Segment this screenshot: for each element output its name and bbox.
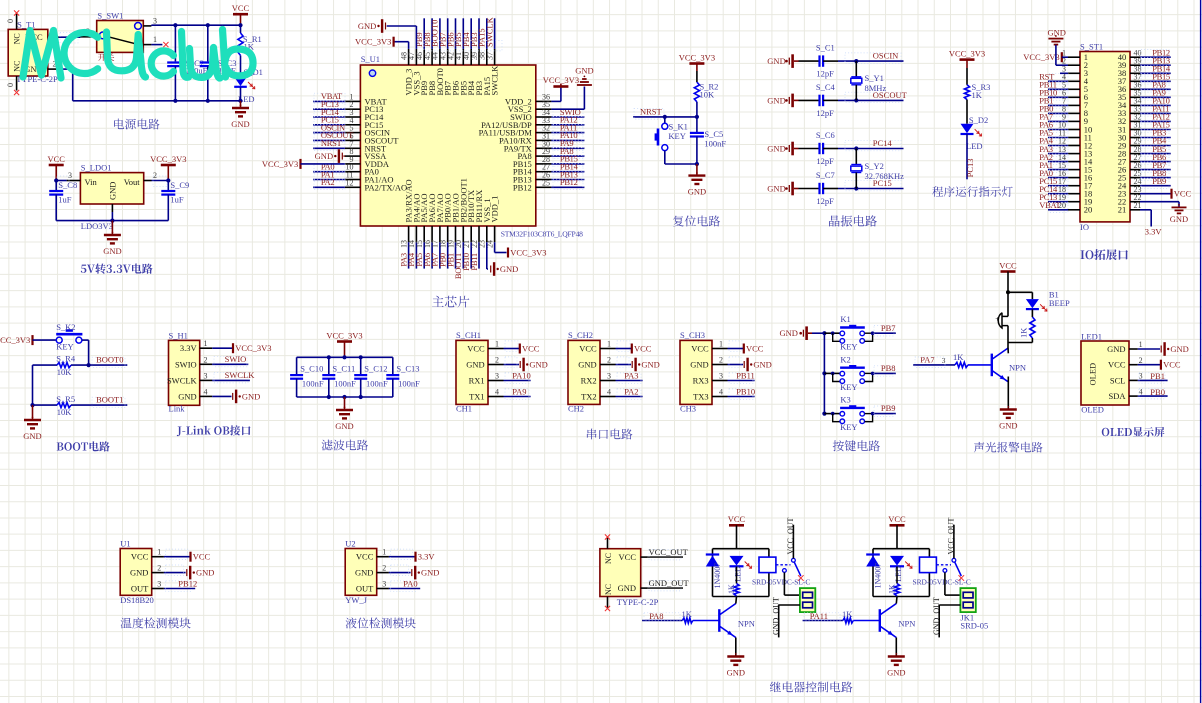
svg-text:3: 3 — [153, 17, 157, 26]
svg-text:VCC_3V3: VCC_3V3 — [949, 48, 985, 58]
connector T2 TYPE-C-2P — [600, 549, 641, 597]
svg-text:+: + — [995, 314, 999, 323]
power 3.3V (U2) — [414, 552, 416, 562]
svg-text:PB8: PB8 — [881, 363, 896, 373]
wire CH2 pin1 to VCC — [616, 348, 632, 350]
svg-text:VCC_3V3: VCC_3V3 — [262, 159, 298, 169]
junction — [871, 372, 875, 376]
power VCC (LDO) — [49, 164, 64, 167]
dashed link coil-switch — [936, 564, 951, 566]
wire net PA15 — [486, 18, 488, 49]
module U2 (YW_J) — [345, 549, 377, 596]
ground GND (filter) — [344, 397, 346, 410]
wire net PA2 — [616, 396, 643, 398]
svg-text:PA2/TX/AO: PA2/TX/AO — [365, 182, 408, 192]
svg-text:1: 1 — [1139, 340, 1143, 349]
svg-text:VCC: VCC — [193, 552, 211, 562]
key K3 — [833, 414, 840, 422]
switch common — [792, 558, 796, 562]
svg-text:GND: GND — [466, 360, 484, 370]
svg-text:2: 2 — [607, 356, 611, 365]
wire net PB14 — [1140, 72, 1171, 74]
pin 5 of U1 (OSCIN) — [345, 132, 361, 134]
pin 40 of ST1 — [1130, 56, 1140, 58]
pin 4 of H1 (GND) — [200, 395, 213, 397]
wire emitter to GND — [1007, 377, 1009, 410]
svg-text:2: 2 — [157, 564, 161, 573]
svg-text:TX1: TX1 — [469, 392, 485, 402]
capacitor S_C5 — [696, 117, 698, 132]
svg-text:S_C10: S_C10 — [300, 363, 323, 373]
wire net PA2 — [313, 186, 345, 188]
pin 36 of ST1 — [1130, 88, 1140, 90]
pin 10 of ST1 — [1068, 129, 1080, 131]
wire contact to connector — [783, 572, 785, 595]
power VCC_3V3 (BOOT) — [31, 335, 33, 345]
junction — [238, 99, 242, 103]
svg-text:1N4007: 1N4007 — [873, 563, 882, 589]
wire net PB12 — [1140, 56, 1171, 58]
wire net PC14 — [1048, 193, 1068, 195]
wire net RST — [1048, 80, 1068, 82]
svg-text:GND: GND — [231, 119, 249, 129]
wire net PB13 — [1140, 64, 1171, 66]
wire net PA8 — [551, 155, 584, 157]
pin1 marker — [369, 70, 375, 76]
selection hints top pins — [424, 41, 502, 51]
svg-text:1K: 1K — [842, 609, 853, 619]
title 主芯片 — [432, 296, 469, 308]
svg-text:3: 3 — [942, 356, 946, 365]
wire net PB6 — [455, 18, 457, 49]
pin 17 of U1 (PA7/AO) — [439, 226, 441, 242]
svg-text:GND: GND — [103, 246, 121, 256]
junction — [238, 23, 242, 27]
pin 1 of CH1 (VCC) — [488, 348, 504, 350]
pin 39 of ST1 — [1130, 64, 1140, 66]
ground GND (BOOT) — [32, 405, 34, 419]
dashed link coil-switch — [776, 564, 791, 566]
capacitor S_C2 — [174, 25, 176, 61]
svg-text:GND: GND — [315, 151, 333, 161]
power VCC (CH3) — [743, 344, 745, 354]
svg-text:3.3V: 3.3V — [418, 552, 436, 562]
junction — [327, 395, 331, 399]
power VCC_3V3 at U1 pin9 — [299, 159, 301, 169]
junction — [822, 371, 826, 375]
pin 18 of ST1 — [1068, 193, 1080, 195]
wire net SWCLK — [212, 379, 250, 381]
pin 2 of LED1 (VCC) — [1129, 364, 1138, 366]
wire net PB10 — [470, 242, 472, 268]
wire GND to S_C1 — [794, 60, 799, 62]
svg-text:PC13: PC13 — [965, 158, 975, 177]
power VCC_3V3 (LDO out) — [161, 164, 176, 167]
pin 33 of ST1 — [1130, 112, 1140, 114]
svg-text:K1: K1 — [840, 314, 850, 324]
pin 2 of CH2 (GND) — [600, 364, 616, 366]
pin 18 of U1 (PB0/AO) — [447, 226, 449, 242]
svg-text:S_Y2: S_Y2 — [865, 161, 884, 171]
svg-text:3: 3 — [607, 372, 611, 381]
junction — [173, 23, 177, 27]
title 温度检测模块 — [121, 618, 191, 629]
power VCC (relay 2) — [890, 524, 905, 527]
junction — [695, 115, 699, 119]
wire BOOT0 row — [33, 364, 58, 366]
svg-text:2: 2 — [382, 564, 386, 573]
junction — [342, 355, 346, 359]
svg-text:LED1: LED1 — [1081, 331, 1102, 341]
pin NC bottom of T1 — [16, 76, 18, 91]
wire net PA7 — [439, 242, 441, 268]
switch contact — [783, 569, 787, 573]
wire GND to S_C6 — [794, 148, 799, 150]
svg-text:32.768KHz: 32.768KHz — [865, 171, 905, 181]
pin 29 of ST1 — [1130, 145, 1140, 147]
pin 23 of U1 (VSS_1) — [486, 226, 488, 242]
svg-text:PB9: PB9 — [881, 403, 896, 413]
wire net PB12 — [164, 588, 195, 590]
svg-text:1: 1 — [204, 339, 208, 348]
wire U1 pin47 to GND — [415, 26, 417, 49]
wire net PB4 — [1140, 145, 1171, 147]
wire U1 pin23 to GND — [486, 242, 488, 269]
pin 2 of U1 (GND) — [152, 572, 164, 574]
svg-text:KEY: KEY — [840, 422, 857, 432]
wire net PC14 — [313, 116, 345, 118]
wire net OSCOUT — [313, 139, 345, 141]
svg-text:GND: GND — [108, 182, 118, 200]
svg-text:KEY: KEY — [840, 342, 857, 352]
svg-text:1N4007: 1N4007 — [713, 563, 722, 589]
wire CH1 pin1 to VCC — [504, 348, 520, 350]
wire collector — [895, 597, 898, 604]
svg-text:10K: 10K — [700, 90, 716, 100]
wire pin2 to VCC_3V3 — [152, 180, 169, 182]
svg-text:3: 3 — [719, 372, 723, 381]
wire net PB13 — [551, 179, 584, 181]
junction — [822, 412, 826, 416]
svg-text:1K: 1K — [682, 609, 693, 619]
wire emitter to GND — [735, 638, 737, 657]
svg-text:OSCIN: OSCIN — [873, 51, 899, 61]
power VCC ST1 pin23 — [1140, 193, 1171, 195]
svg-text:12pF: 12pF — [816, 69, 834, 79]
wire net PA3 — [1048, 153, 1068, 155]
svg-text:Link: Link — [169, 404, 186, 414]
svg-text:8MHz: 8MHz — [865, 83, 887, 93]
wire net PA4 — [1048, 145, 1068, 147]
pin 3 of CH2 (RX2) — [600, 380, 616, 382]
key K2 — [833, 373, 840, 381]
svg-text:PB0: PB0 — [1150, 387, 1165, 397]
wire R4 to BOOT0 label — [71, 364, 127, 366]
svg-text:NPN: NPN — [738, 619, 755, 629]
wire resistor to collector node — [1031, 338, 1033, 343]
svg-text:S_T1: S_T1 — [17, 19, 35, 29]
wire net PA10 — [504, 380, 531, 382]
pin 46 of U1 (PB9) — [423, 49, 425, 65]
wire CH3 pin2 to GND — [728, 364, 744, 366]
svg-text:VDD_1: VDD_1 — [490, 196, 500, 223]
svg-text:S_K2: S_K2 — [56, 322, 75, 332]
svg-text:GND: GND — [767, 56, 785, 66]
pin 11 of U1 (PA1/AO) — [345, 179, 361, 181]
svg-text:NPN: NPN — [1009, 363, 1026, 373]
svg-text:GND: GND — [335, 421, 353, 431]
svg-text:S_Y1: S_Y1 — [865, 73, 884, 83]
svg-text:S_LDO1: S_LDO1 — [81, 163, 112, 173]
wire net PA0 — [389, 588, 420, 590]
pin 3 of CH1 (RX1) — [488, 380, 504, 382]
svg-text:BOOT0: BOOT0 — [96, 354, 123, 364]
svg-text:1: 1 — [495, 340, 499, 349]
switch lever — [106, 36, 135, 43]
pin 29 of U1 (PA8) — [536, 155, 552, 157]
svg-text:1K: 1K — [1019, 327, 1029, 338]
ground GND (CH3) — [743, 361, 745, 368]
regulator S_LDO1 — [80, 173, 143, 204]
svg-text:S_C4: S_C4 — [816, 82, 836, 92]
pin 1 of U2 (VCC) — [377, 556, 389, 558]
svg-text:GND: GND — [641, 359, 659, 369]
svg-text:S_U1: S_U1 — [361, 54, 380, 64]
svg-text:IO: IO — [1080, 222, 1089, 232]
svg-text:SRD-05VDC-SL-C: SRD-05VDC-SL-C — [913, 578, 971, 587]
svg-text:VCC_3V3: VCC_3V3 — [543, 75, 579, 85]
svg-text:TX2: TX2 — [581, 392, 597, 402]
pin 34 of ST1 — [1130, 104, 1140, 106]
pin 9 of ST1 — [1068, 120, 1080, 122]
pin 40 of U1 (PB4) — [470, 49, 472, 65]
capacitor S_C3 — [207, 25, 209, 61]
svg-text:2: 2 — [719, 356, 723, 365]
svg-text:1: 1 — [607, 340, 611, 349]
wire LED to rail — [240, 87, 242, 101]
svg-text:VCC: VCC — [356, 552, 374, 562]
svg-text:2: 2 — [204, 355, 208, 364]
wire VCC top rail — [150, 24, 152, 27]
svg-text:SWCLK: SWCLK — [490, 65, 500, 96]
wire net PB4 — [470, 18, 472, 49]
wire net PB9 — [1140, 185, 1171, 187]
pin 26 of ST1 — [1130, 169, 1140, 171]
wire emitter to GND — [895, 638, 897, 657]
key trunk — [823, 333, 825, 413]
svg-text:SCL: SCL — [1110, 375, 1126, 385]
svg-text:3: 3 — [495, 372, 499, 381]
ground GND ST1 pin22 — [1140, 201, 1179, 203]
pin 22 of ST1 — [1130, 201, 1140, 203]
svg-text:PA2: PA2 — [321, 177, 334, 187]
svg-text:1: 1 — [382, 548, 386, 557]
wire LED to resistor — [1031, 309, 1033, 317]
svg-text:CH3: CH3 — [680, 404, 696, 414]
pin 13 of ST1 — [1068, 153, 1080, 155]
ground GND at U1 pin8 — [341, 153, 343, 160]
junction — [831, 412, 835, 416]
svg-text:2: 2 — [495, 356, 499, 365]
svg-text:PB10: PB10 — [736, 386, 755, 396]
pin 13 of U1 (PA3/RX/AO) — [408, 226, 410, 242]
svg-text:S_D2: S_D2 — [969, 115, 988, 125]
title 滤波电路 — [322, 440, 369, 451]
capacitor S_C9 — [167, 181, 169, 191]
pin 4 of ST1 — [1068, 80, 1080, 82]
ground GND right of U1 — [577, 84, 592, 86]
pin 8 of U1 (VSSA) — [345, 155, 361, 157]
diode 1N4007 — [866, 553, 880, 555]
svg-text:S_C6: S_C6 — [816, 130, 835, 140]
resistor S_R5 — [57, 403, 71, 408]
pin 1 of CH2 (VCC) — [600, 348, 616, 350]
junction — [831, 372, 835, 376]
svg-text:1uF: 1uF — [170, 195, 184, 205]
wire K2 to BOOT0 — [82, 339, 89, 341]
wire net BOOT1 — [462, 242, 464, 268]
wire net PB8 — [1140, 177, 1171, 179]
pin 2 of ST1 — [1068, 64, 1080, 66]
svg-text:PB12: PB12 — [560, 177, 578, 187]
pin 3 of CH3 (RX3) — [712, 380, 728, 382]
key S_K1 — [664, 117, 666, 123]
pin 1 of CH3 (VCC) — [712, 348, 728, 350]
svg-text:OLED: OLED — [1081, 405, 1104, 415]
wire net PB7 — [447, 18, 449, 49]
pin 14 of ST1 — [1068, 161, 1080, 163]
pin 16 of ST1 — [1068, 177, 1080, 179]
svg-text:VCC: VCC — [579, 344, 597, 354]
svg-text:BOOT1: BOOT1 — [96, 394, 123, 404]
pin 41 of U1 (PB5) — [462, 49, 464, 65]
header S_ST1 — [1080, 52, 1130, 222]
svg-text:10K: 10K — [57, 407, 72, 417]
pin 37 of ST1 — [1130, 80, 1140, 82]
pin 21 of U1 (PB10/TX) — [470, 226, 472, 242]
svg-text:GND_OUT: GND_OUT — [932, 597, 941, 635]
svg-text:NRST: NRST — [321, 138, 343, 148]
pin 1 of H1 (3.3V) — [200, 347, 213, 349]
crystal S_Y2 — [855, 149, 857, 165]
svg-text:GND: GND — [529, 359, 547, 369]
logo MCUclub — [23, 30, 253, 79]
svg-text:0: 0 — [6, 83, 15, 87]
wire net PB11 — [728, 380, 755, 382]
svg-text:YW_J: YW_J — [345, 595, 367, 605]
svg-text:LDO3V3: LDO3V3 — [81, 221, 113, 231]
svg-text:GND: GND — [500, 264, 518, 274]
pin 48 of U1 (VDD_3) — [408, 49, 410, 65]
resistor S_R1 — [240, 29, 242, 33]
junction — [831, 331, 835, 335]
pin 3 of SW1 — [143, 25, 151, 27]
display LED1 OLED — [1081, 341, 1129, 405]
title 继电器控制电路 — [770, 682, 853, 693]
wire net PB1 — [1048, 104, 1068, 106]
svg-text:100nF: 100nF — [334, 379, 356, 389]
wire net PA11 — [551, 132, 584, 134]
pin 3 of H1 (SWCLK) — [200, 379, 213, 381]
svg-text:VCC_3V3: VCC_3V3 — [326, 330, 362, 340]
wire net PC13 — [313, 108, 345, 110]
svg-text:PA2: PA2 — [624, 386, 638, 396]
title 5V转3.3V电路 — [81, 264, 153, 274]
power VCC_3V3 (reset) — [689, 62, 704, 65]
svg-text:S_R5: S_R5 — [56, 394, 75, 404]
wire reset bottom — [665, 163, 697, 165]
ERC marker — [798, 575, 804, 581]
pin 5 of ST1 — [1068, 88, 1080, 90]
svg-text:GND: GND — [178, 391, 196, 401]
svg-text:PB1: PB1 — [1150, 371, 1165, 381]
svg-text:VCC: VCC — [47, 154, 65, 164]
wire stub ST1 pin3 — [1060, 72, 1068, 74]
svg-text:2: 2 — [153, 171, 157, 180]
wire trunk to K2 — [824, 372, 840, 374]
switch arm — [794, 562, 801, 576]
LED S_D2 — [961, 124, 974, 134]
wire net PB10 — [728, 396, 755, 398]
wire net VBAT — [313, 100, 345, 102]
title OLED显示屏 — [1102, 427, 1165, 437]
svg-text:VCC_3V3: VCC_3V3 — [0, 335, 30, 345]
wire GND to S_C4 — [794, 99, 799, 101]
svg-text:0: 0 — [6, 19, 15, 23]
wire S_C6 to junction — [823, 148, 838, 150]
power VCC_3V3 bottom — [507, 248, 509, 258]
svg-text:GND_OUT: GND_OUT — [649, 578, 690, 588]
power VCC_3V3 (indicator) — [960, 58, 975, 61]
svg-text:VCC_OUT: VCC_OUT — [947, 517, 956, 554]
svg-text:GND: GND — [1170, 344, 1188, 354]
title 液位检测模块 — [346, 618, 416, 629]
svg-text:VCC_3V3: VCC_3V3 — [355, 37, 391, 47]
pin 15 of U1 (PA5/AO) — [423, 226, 425, 242]
ground GND (CH1) — [519, 361, 521, 368]
pin VCC of T2 — [641, 556, 648, 558]
relay coil — [759, 557, 776, 573]
svg-text:VCC: VCC — [467, 344, 485, 354]
pin NC top of T2 — [607, 537, 609, 548]
wire to LED branch — [1008, 291, 1032, 293]
wire net VBAT — [1048, 209, 1068, 211]
svg-text:DS18B20: DS18B20 — [120, 595, 154, 605]
svg-text:CH1: CH1 — [456, 404, 472, 414]
pin 32 of ST1 — [1130, 120, 1140, 122]
filter top rail — [297, 356, 393, 358]
transistor NPN (alarm) — [991, 354, 993, 377]
capacitor S_C1 — [818, 55, 820, 66]
svg-text:12pF: 12pF — [816, 108, 834, 118]
wire R5 to BOOT1 label — [71, 404, 127, 406]
wire R3 to D2 — [966, 100, 968, 124]
svg-text:VCC_OUT: VCC_OUT — [786, 517, 795, 554]
ground GND (reset) — [696, 164, 698, 175]
svg-text:VCC: VCC — [691, 344, 709, 354]
wire net PA11 — [1140, 112, 1171, 114]
wire S_C4 to junction — [823, 99, 838, 101]
junction — [1006, 290, 1010, 294]
svg-text:VCC: VCC — [999, 260, 1017, 270]
svg-text:Vout: Vout — [124, 177, 141, 187]
svg-text:1: 1 — [719, 340, 723, 349]
wire U1 pin35 to GND — [551, 108, 584, 110]
svg-text:RX1: RX1 — [469, 376, 485, 386]
pin 7 of ST1 — [1068, 104, 1080, 106]
switch contact circles — [99, 32, 106, 39]
power VCC (CH1) — [519, 344, 521, 354]
